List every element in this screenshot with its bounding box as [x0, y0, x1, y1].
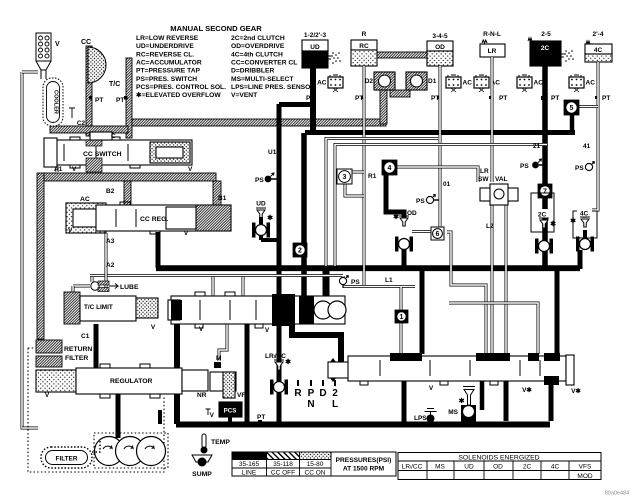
svg-text:RC=REVERSE CL.: RC=REVERSE CL.: [136, 51, 194, 58]
svg-text:T/C: T/C: [109, 81, 120, 88]
svg-text:PCS=PRES. CONTROL SOL.: PCS=PRES. CONTROL SOL.: [136, 84, 226, 91]
svg-text:V: V: [45, 392, 50, 399]
svg-text:35-118: 35-118: [273, 461, 293, 468]
svg-text:PS: PS: [575, 165, 584, 172]
svg-text:1-2/2'-3: 1-2/2'-3: [304, 32, 327, 39]
svg-text:D=DRIBBLER: D=DRIBBLER: [231, 68, 274, 75]
svg-text:A1: A1: [54, 166, 63, 173]
svg-text:V✱: V✱: [571, 387, 581, 395]
svg-text:LR: LR: [480, 168, 489, 175]
svg-text:4: 4: [388, 165, 392, 172]
svg-text:V=VENT: V=VENT: [231, 92, 258, 99]
svg-text:TEMP: TEMP: [211, 439, 230, 446]
svg-text:B1: B1: [218, 195, 227, 202]
svg-text:21: 21: [533, 143, 541, 150]
svg-text:N: N: [307, 399, 314, 410]
svg-text:V: V: [188, 166, 193, 173]
svg-text:UD: UD: [464, 464, 474, 471]
svg-text:4C=4th CLUTCH: 4C=4th CLUTCH: [231, 51, 283, 58]
svg-text:R1: R1: [368, 173, 377, 180]
svg-text:R: R: [294, 388, 302, 399]
svg-text:01: 01: [443, 181, 451, 188]
svg-text:2C: 2C: [541, 45, 550, 52]
svg-text:AC: AC: [534, 80, 544, 87]
svg-text:2C=2nd CLUTCH: 2C=2nd CLUTCH: [231, 35, 285, 42]
svg-text:P: P: [308, 388, 315, 399]
svg-text:L1: L1: [385, 277, 393, 284]
svg-text:FILTER: FILTER: [65, 355, 88, 362]
svg-text:5: 5: [570, 105, 574, 112]
svg-text:V: V: [199, 326, 204, 333]
svg-text:LR: LR: [488, 48, 497, 55]
svg-text:UD=UNDERDRIVE: UD=UNDERDRIVE: [136, 43, 194, 50]
svg-text:4C: 4C: [594, 47, 603, 54]
svg-text:LR=LOW REVERSE: LR=LOW REVERSE: [136, 35, 199, 42]
svg-text:6: 6: [436, 231, 440, 238]
svg-text:2-5: 2-5: [541, 31, 551, 38]
svg-text:NR: NR: [197, 392, 207, 399]
svg-text:PT: PT: [602, 95, 610, 102]
svg-text:PT: PT: [499, 95, 507, 102]
svg-text:41: 41: [583, 143, 591, 150]
svg-text:FILTER: FILTER: [56, 456, 78, 463]
svg-text:MANUAL SECOND GEAR: MANUAL SECOND GEAR: [170, 24, 262, 33]
svg-text:AC: AC: [80, 196, 90, 203]
svg-text:UD: UD: [310, 44, 320, 51]
svg-text:VF: VF: [237, 392, 245, 399]
svg-text:M: M: [216, 355, 221, 362]
svg-text:4C: 4C: [580, 211, 589, 218]
svg-text:MS=MULTI-SELECT: MS=MULTI-SELECT: [231, 76, 294, 83]
svg-text:2C: 2C: [523, 464, 532, 471]
svg-text:MS: MS: [435, 464, 445, 471]
svg-text:D2: D2: [365, 78, 374, 85]
svg-text:AC: AC: [317, 80, 327, 87]
svg-text:SOLENOIDS ENERGIZED: SOLENOIDS ENERGIZED: [458, 455, 539, 462]
svg-text:V: V: [72, 166, 77, 173]
svg-text:C2: C2: [77, 120, 86, 127]
svg-text:A2: A2: [106, 262, 115, 269]
svg-text:VFS: VFS: [579, 464, 592, 471]
svg-text:LRₗ/CC: LRₗ/CC: [265, 353, 286, 360]
svg-text:35-165: 35-165: [239, 461, 260, 468]
svg-text:4C: 4C: [551, 464, 560, 471]
svg-text:V: V: [55, 41, 60, 48]
svg-text:V✱: V✱: [522, 386, 532, 394]
svg-text:A3: A3: [106, 238, 115, 245]
svg-text:PT: PT: [95, 97, 103, 104]
svg-text:LPS: LPS: [414, 415, 427, 422]
svg-text:CC REG.: CC REG.: [140, 216, 168, 223]
svg-text:PS: PS: [416, 198, 425, 205]
svg-text:PT: PT: [551, 95, 559, 102]
svg-text:SUMP: SUMP: [192, 471, 212, 478]
svg-text:✱: ✱: [570, 217, 576, 225]
svg-text:L2: L2: [486, 223, 494, 230]
svg-text:RETURN: RETURN: [64, 346, 92, 353]
svg-text:PS: PS: [255, 177, 264, 184]
svg-text:3: 3: [343, 174, 347, 181]
svg-text:AC=ACCUMULATOR: AC=ACCUMULATOR: [136, 59, 202, 66]
svg-text:COOLER: COOLER: [53, 90, 59, 114]
svg-text:MOD: MOD: [577, 473, 592, 480]
svg-text:2: 2: [332, 388, 338, 399]
svg-text:✱: ✱: [459, 397, 465, 405]
svg-text:2C: 2C: [538, 212, 547, 219]
svg-text:CC ON: CC ON: [305, 470, 326, 477]
svg-text:REGULATOR: REGULATOR: [110, 378, 153, 385]
svg-text:PS: PS: [520, 163, 529, 170]
svg-text:MS: MS: [448, 409, 458, 416]
svg-text:V: V: [184, 230, 189, 237]
svg-text:✱: ✱: [267, 214, 273, 222]
svg-text:PT: PT: [116, 97, 124, 104]
svg-text:PS: PS: [351, 279, 360, 286]
svg-text:D: D: [319, 388, 326, 399]
svg-text:C: C: [111, 133, 116, 140]
svg-text:CC OFF: CC OFF: [271, 470, 295, 477]
svg-text:V: V: [429, 385, 434, 392]
svg-text:VAL: VAL: [495, 176, 508, 183]
svg-text:PT=PRESSURE TAP: PT=PRESSURE TAP: [136, 68, 201, 75]
svg-text:PS=PRES. SWITCH: PS=PRES. SWITCH: [136, 76, 197, 83]
svg-text:✱=ELEVATED OVERFLOW: ✱=ELEVATED OVERFLOW: [136, 91, 221, 99]
svg-text:3-4-5: 3-4-5: [432, 33, 448, 40]
svg-text:D1: D1: [428, 78, 437, 85]
svg-text:OD=OVERDRIVE: OD=OVERDRIVE: [231, 43, 285, 50]
svg-text:R: R: [362, 31, 367, 38]
svg-text:CC=CONVERTER CL: CC=CONVERTER CL: [231, 59, 297, 66]
svg-text:80a0e484: 80a0e484: [605, 491, 629, 497]
svg-text:✱: ✱: [550, 220, 556, 228]
svg-text:U1: U1: [268, 149, 277, 156]
svg-text:LPS=LINE PRES. SENSOR: LPS=LINE PRES. SENSOR: [231, 84, 315, 91]
svg-text:B2: B2: [106, 188, 115, 195]
svg-text:AT 1500 RPM: AT 1500 RPM: [343, 466, 385, 473]
svg-text:7: 7: [543, 189, 547, 196]
svg-text:OD: OD: [493, 464, 503, 471]
svg-text:V: V: [265, 327, 270, 334]
svg-text:PT: PT: [257, 414, 265, 421]
svg-text:✱: ✱: [285, 358, 291, 366]
svg-text:LINE: LINE: [242, 470, 257, 477]
svg-text:2'-4: 2'-4: [593, 31, 604, 38]
svg-text:LRₗ/CC: LRₗ/CC: [402, 464, 423, 471]
svg-text:L: L: [332, 399, 338, 410]
svg-text:R-N-L: R-N-L: [483, 31, 501, 38]
svg-text:UD: UD: [256, 201, 266, 208]
svg-text:CC SWITCH: CC SWITCH: [83, 151, 122, 158]
svg-text:2: 2: [298, 248, 302, 255]
svg-text:C1: C1: [81, 333, 90, 340]
svg-text:LUBE: LUBE: [120, 284, 139, 291]
svg-text:SW: SW: [478, 176, 489, 183]
svg-text:PCS: PCS: [224, 408, 237, 415]
svg-text:PRESSURES(PSI): PRESSURES(PSI): [336, 457, 392, 464]
svg-text:RC: RC: [359, 43, 369, 50]
svg-text:AC: AC: [463, 80, 473, 87]
svg-text:✱: ✱: [393, 213, 399, 221]
svg-text:V: V: [68, 227, 73, 234]
svg-text:1: 1: [400, 314, 404, 321]
svg-text:V: V: [151, 324, 156, 331]
svg-text:15-80: 15-80: [307, 461, 324, 468]
svg-text:OD: OD: [435, 44, 445, 51]
svg-text:T/C LIMIT: T/C LIMIT: [84, 304, 113, 311]
svg-text:CC: CC: [81, 39, 91, 46]
svg-text:V: V: [210, 412, 215, 419]
svg-text:AC: AC: [586, 80, 596, 87]
